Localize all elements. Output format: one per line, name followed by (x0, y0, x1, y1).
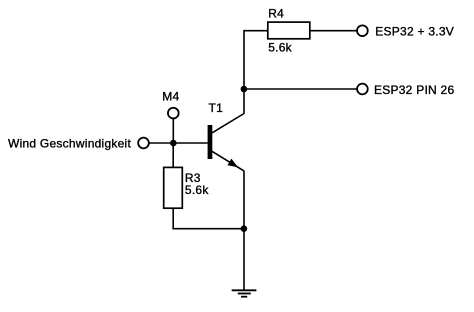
node junction base/M4 (170, 140, 177, 147)
svg-text:T1: T1 (209, 101, 224, 115)
wire M4 drop (172, 119, 174, 143)
wire bottom horizontal (172, 228, 244, 230)
transistor T1 emitter lead (212, 151, 244, 171)
transistor T1 collector lead (212, 114, 244, 133)
terminal circle ESP32 +3.3V (357, 25, 368, 36)
svg-text:ESP32 + 3.3V: ESP32 + 3.3V (375, 24, 454, 38)
resistor R3 (164, 167, 183, 208)
node junction collector/PIN26 (241, 86, 248, 93)
wire R3 bottom (172, 208, 174, 229)
svg-text:5.6k: 5.6k (268, 41, 292, 55)
svg-text:Wind Geschwindigkeit: Wind Geschwindigkeit (8, 137, 131, 151)
wire R3 top (172, 143, 174, 168)
ground bar 2 (238, 293, 251, 295)
wire emitter vertical (243, 171, 245, 290)
transistor Q1 base bar (208, 125, 213, 159)
terminal circle M4 (168, 108, 179, 119)
svg-text:R4: R4 (268, 7, 284, 21)
node junction emitter/ground (241, 225, 248, 232)
svg-text:ESP32 PIN 26: ESP32 PIN 26 (374, 83, 454, 97)
wire R4 right (310, 30, 357, 32)
terminal circle Wind Geschwindigkeit (138, 138, 149, 149)
wire R4 left (244, 30, 269, 32)
ground bar 1 (232, 289, 257, 291)
transistor T1 emitter arrow (227, 159, 238, 168)
ground bar 3 (241, 296, 247, 298)
wire ESP32 PIN 26 (244, 88, 357, 90)
svg-text:M4: M4 (162, 89, 179, 103)
svg-text:5.6k: 5.6k (185, 183, 209, 197)
wire collector vertical (243, 30, 245, 114)
resistor R4 (268, 22, 310, 39)
terminal circle ESP32 PIN 26 (357, 84, 368, 95)
wire base (149, 142, 208, 144)
